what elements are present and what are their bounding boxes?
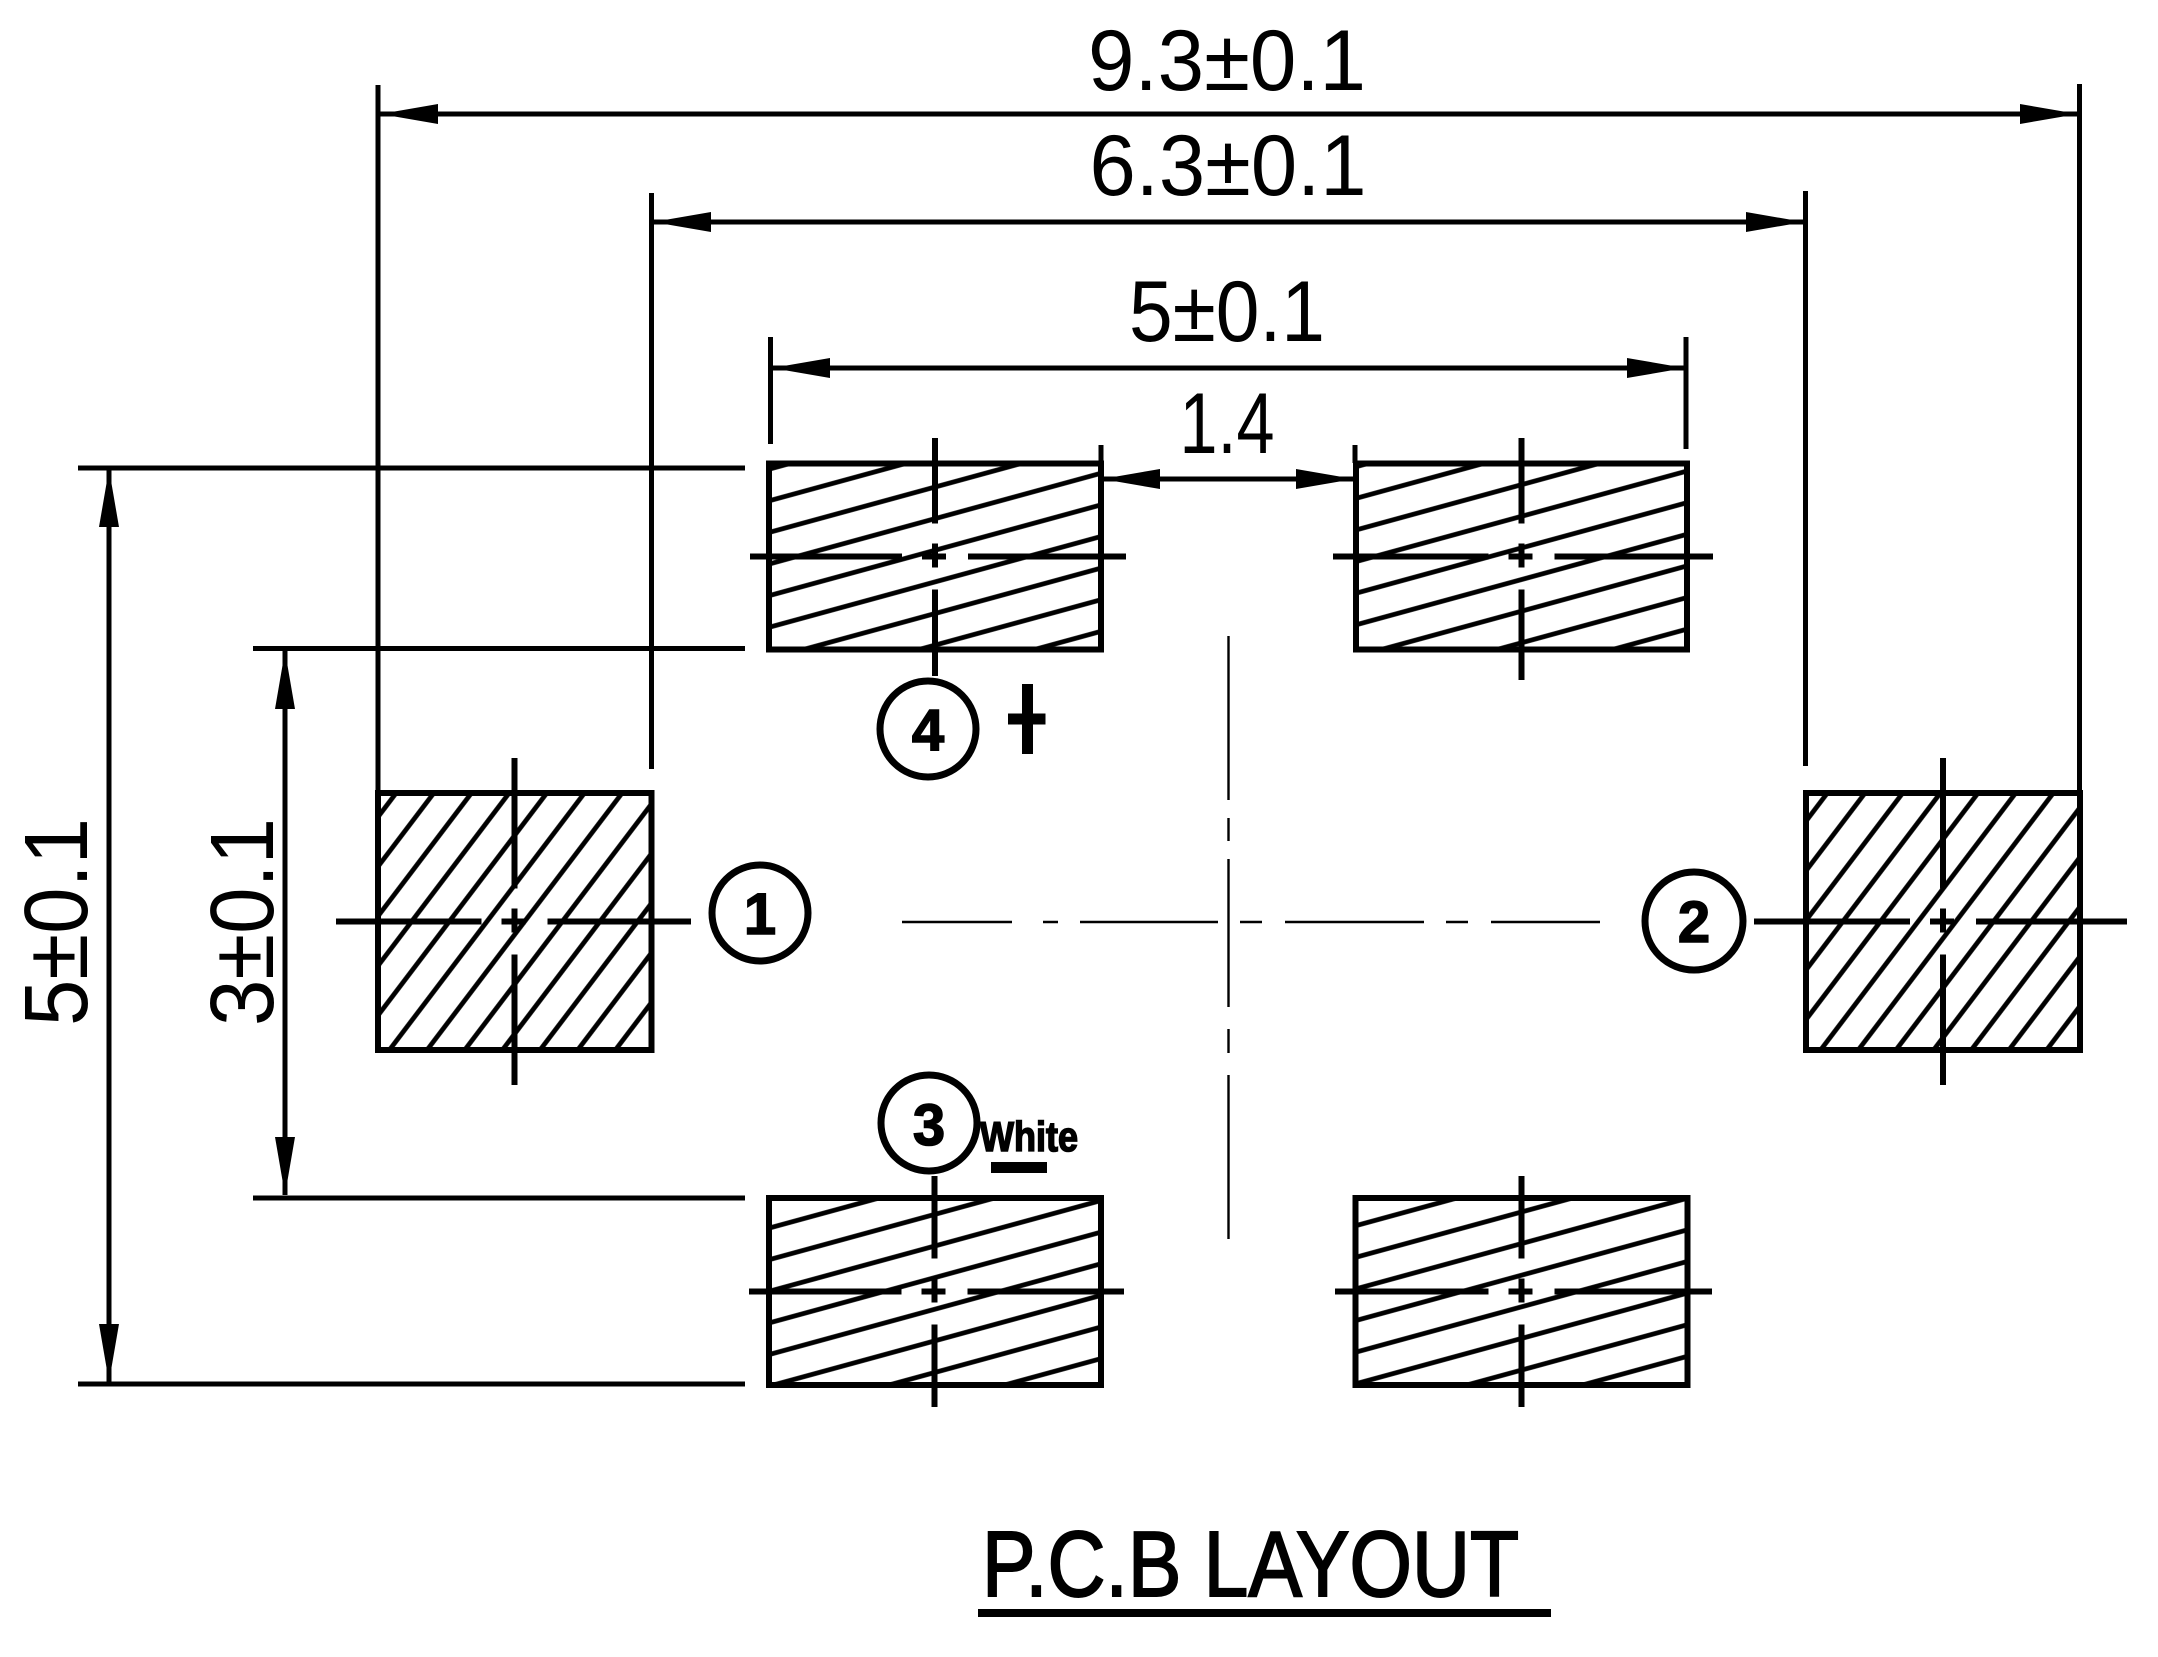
extension line top 3 (left side) bbox=[253, 646, 745, 651]
svg-text:3±0.1: 3±0.1 bbox=[193, 818, 293, 1026]
centerline cross pad 2 bbox=[1754, 758, 2127, 1085]
pin number 3 balloon bbox=[881, 1075, 977, 1171]
extension tick right 1.4 bbox=[1353, 445, 1358, 463]
extension line bottom 3 (left side) bbox=[253, 1196, 745, 1201]
pin number 1 balloon bbox=[712, 865, 808, 961]
dimension text 5 vertical bbox=[7, 818, 107, 1026]
pad bottom-right hatched pad bbox=[1356, 1198, 1688, 1385]
dimension line 1.4 bbox=[1102, 469, 1354, 489]
dimension line 6.3 bbox=[653, 212, 1804, 232]
dimension text 6.3 bbox=[1090, 118, 1367, 214]
pin number 4 balloon bbox=[880, 681, 976, 777]
centerline cross pad top-right bbox=[1333, 438, 1713, 680]
title underline bbox=[978, 1609, 1551, 1617]
centerline cross pad 4 bbox=[750, 438, 1126, 676]
extension line left 5 bbox=[768, 337, 773, 444]
pad top-right hatched pad bbox=[1356, 464, 1687, 650]
dimension line 5 vertical (left) bbox=[99, 469, 119, 1382]
svg-text:3: 3 bbox=[913, 1093, 945, 1158]
extension line bottom 5 (left side) bbox=[78, 1382, 745, 1387]
extension line right 9.3 bbox=[2077, 84, 2082, 794]
pad 1 (left square hatched pad) bbox=[378, 793, 652, 1050]
extension line left 6.3 bbox=[649, 193, 654, 769]
extension tick left 1.4 bbox=[1099, 445, 1104, 464]
pad 3 (bottom-left hatched pad) bbox=[769, 1198, 1101, 1385]
pin number 2 balloon bbox=[1645, 872, 1743, 970]
svg-text:1.4: 1.4 bbox=[1180, 376, 1275, 472]
pad 2 (right square hatched pad) bbox=[1806, 793, 2080, 1050]
dimension line 9.3 bbox=[380, 104, 2078, 124]
centerline cross pad 3 bbox=[749, 1176, 1124, 1407]
extension line left 9.3 bbox=[376, 85, 381, 793]
pad 4 (top-left hatched pad) bbox=[769, 464, 1101, 650]
vertical main center line bbox=[1227, 636, 1229, 1239]
svg-text:P.C.B LAYOUT: P.C.B LAYOUT bbox=[982, 1512, 1519, 1616]
svg-text:5±0.1: 5±0.1 bbox=[7, 818, 107, 1026]
White underline mark bbox=[991, 1162, 1047, 1173]
extension line right 5 bbox=[1684, 337, 1689, 449]
svg-text:6.3±0.1: 6.3±0.1 bbox=[1090, 118, 1367, 214]
dimension text 1.4 bbox=[1180, 376, 1275, 472]
svg-text:5±0.1: 5±0.1 bbox=[1129, 264, 1325, 360]
label White bbox=[980, 1113, 1078, 1160]
svg-text:2: 2 bbox=[1678, 890, 1710, 955]
dimension line 3 vertical (left) bbox=[275, 651, 295, 1195]
polarity mark plus bbox=[1008, 684, 1046, 754]
title P.C.B LAYOUT bbox=[982, 1512, 1519, 1616]
extension line right 6.3 bbox=[1803, 191, 1808, 766]
svg-text:1: 1 bbox=[744, 882, 776, 947]
svg-text:4: 4 bbox=[912, 698, 944, 763]
dimension text 5 bbox=[1129, 264, 1325, 360]
centerline cross pad 1 bbox=[336, 758, 691, 1085]
centerline cross pad bottom-right bbox=[1335, 1176, 1712, 1407]
horizontal main center line bbox=[902, 921, 1600, 923]
svg-text:9.3±0.1: 9.3±0.1 bbox=[1088, 13, 1366, 109]
svg-text:White: White bbox=[980, 1113, 1078, 1160]
dimension line 5 bbox=[772, 358, 1685, 378]
dimension text 3 vertical bbox=[193, 818, 293, 1026]
dimension text 9.3 bbox=[1088, 13, 1366, 109]
extension line top 5 (left side) bbox=[78, 466, 745, 471]
